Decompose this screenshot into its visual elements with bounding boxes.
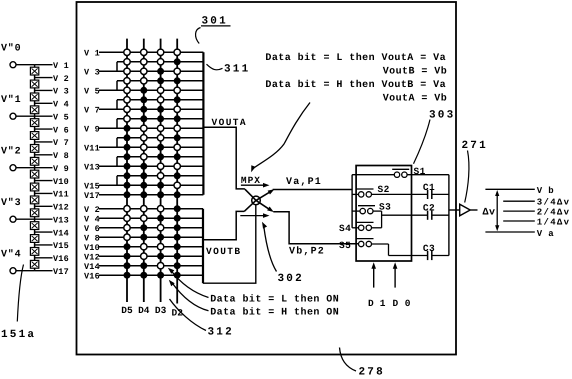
svg-text:V10: V10 <box>53 177 69 187</box>
svg-text:V 4: V 4 <box>53 100 69 110</box>
svg-text:C2: C2 <box>423 203 435 214</box>
svg-text:VoutB = Vb: VoutB = Vb <box>383 66 448 78</box>
svg-text:V12: V12 <box>84 252 100 262</box>
svg-text:V13: V13 <box>53 215 69 225</box>
svg-text:V 6: V 6 <box>53 125 69 135</box>
svg-text:311: 311 <box>224 64 250 76</box>
svg-text:V17: V17 <box>84 191 100 201</box>
svg-text:271: 271 <box>462 140 488 152</box>
annotation: data bit H behaviour <box>265 79 447 104</box>
svg-text:S4: S4 <box>339 223 351 234</box>
matrix input row wire V11 with switch dots <box>84 143 203 153</box>
svg-text:303: 303 <box>429 110 455 122</box>
svg-text:VOUTB: VOUTB <box>206 246 242 257</box>
ladder tap wire and label V4 <box>35 100 69 110</box>
data bit column line D3 <box>155 39 167 316</box>
terminal V"1 <box>1 94 35 119</box>
resistor R3 <box>30 93 38 101</box>
matrix input row wire V16 with switch dots <box>84 271 203 281</box>
svg-text:2/4Δv: 2/4Δv <box>537 208 571 218</box>
control input D0 arrow <box>393 262 411 309</box>
switch S2 <box>352 184 427 197</box>
svg-text:Va,P1: Va,P1 <box>286 177 322 188</box>
common storage node wire <box>448 175 450 256</box>
resistor R8 <box>30 157 38 165</box>
switch S3 <box>352 202 391 228</box>
matrix input row wire V8 with switch dots <box>84 233 203 243</box>
svg-text:278: 278 <box>359 367 385 379</box>
matrix input row wire V15 with switch dots <box>84 181 203 191</box>
svg-text:V15: V15 <box>84 181 100 191</box>
matrix input row wire V1 with switch dots <box>84 48 203 58</box>
terminal V"0 <box>1 43 35 68</box>
reference label 311 with leader <box>207 64 251 76</box>
matrix input row wire V13 with switch dots <box>84 162 203 172</box>
matrix input row wire V17 with switch dots <box>84 191 203 201</box>
svg-text:V a: V a <box>537 229 554 239</box>
svg-text:V10: V10 <box>84 243 100 253</box>
ladder tap wire and label V3 <box>35 87 69 97</box>
ladder tap wire and label V16 <box>35 254 69 264</box>
ladder tap wire and label V17 <box>35 267 69 277</box>
svg-text:V 8: V 8 <box>84 233 100 243</box>
reference label 303 with leader <box>414 110 456 164</box>
svg-text:V 1: V 1 <box>84 48 100 58</box>
svg-text:V 5: V 5 <box>53 112 69 122</box>
svg-text:V12: V12 <box>53 203 69 213</box>
svg-text:Data bit = H then VoutB = Va: Data bit = H then VoutB = Va <box>265 79 446 91</box>
matrix branch row wire (pairs with row below) <box>117 58 203 71</box>
leader arrow from annotation to MPX <box>251 103 310 173</box>
svg-text:D3: D3 <box>155 305 167 316</box>
svg-text:MPX: MPX <box>241 175 261 186</box>
matrix branch row wire (pairs with row below) <box>117 77 203 90</box>
lower output bus (even taps, VOUTB) <box>202 209 204 284</box>
svg-text:V 6: V 6 <box>84 224 100 234</box>
data bit column line D4 <box>138 39 150 316</box>
arrow below MPX <box>240 213 269 218</box>
matrix input row wire V3 with switch dots <box>84 67 203 77</box>
svg-text:V 1: V 1 <box>53 61 69 71</box>
svg-text:Data bit = L then VoutA = Va: Data bit = L then VoutA = Va <box>265 52 446 64</box>
svg-text:V16: V16 <box>84 271 100 281</box>
svg-text:V17: V17 <box>53 267 69 277</box>
svg-text:C3: C3 <box>423 243 435 254</box>
node Vb level line <box>485 186 554 196</box>
matrix input row wire V4 with switch dots <box>84 214 203 224</box>
svg-text:VoutA = Vb: VoutA = Vb <box>383 92 448 104</box>
terminal V"4 <box>1 249 35 274</box>
resistor ladder string 151a <box>34 65 36 271</box>
ladder tap wire and label V15 <box>35 241 69 251</box>
resistor R5 <box>30 119 38 127</box>
svg-text:V14: V14 <box>53 228 69 238</box>
svg-text:Data bit = H then ON: Data bit = H then ON <box>210 307 339 319</box>
terminal V"2 <box>1 146 35 171</box>
matrix input row wire V10 with switch dots <box>84 243 203 253</box>
buffer amplifier 271 <box>449 204 478 216</box>
ladder tap wire and label V2 <box>35 74 69 84</box>
ladder tap wire and label V6 <box>35 125 69 135</box>
matrix input row wire V9 with switch dots <box>84 124 203 134</box>
resistor R14 <box>30 235 38 243</box>
1/4 delta-v level line <box>503 218 570 228</box>
resistor R9 <box>30 170 38 178</box>
svg-text:V"1: V"1 <box>1 94 21 106</box>
ladder tap wire and label V8 <box>35 151 69 161</box>
svg-text:V14: V14 <box>84 262 100 272</box>
switch block 303 box <box>356 166 411 262</box>
terminal V"3 <box>1 197 35 222</box>
matrix branch row wire (pairs with row below) <box>117 172 203 185</box>
resistor R4 <box>30 106 38 114</box>
svg-text:Data bit = L then ON: Data bit = L then ON <box>210 293 339 305</box>
resistor R1 <box>30 67 38 75</box>
svg-text:D5: D5 <box>121 305 133 316</box>
MPX control wire from lower bus (D2) <box>203 205 256 284</box>
ladder tap wire and label V10 <box>35 177 69 187</box>
svg-text:V"3: V"3 <box>1 197 21 209</box>
svg-text:VOUTA: VOUTA <box>212 117 248 128</box>
capacitor C1 <box>423 182 449 199</box>
data bit column line D2 <box>172 39 184 319</box>
3/4 delta-v level line <box>503 198 570 208</box>
ladder tap wire and label V12 <box>35 203 69 213</box>
svg-text:V15: V15 <box>53 241 69 251</box>
svg-text:V 3: V 3 <box>84 67 100 77</box>
svg-text:V 5: V 5 <box>84 86 100 96</box>
matrix input row wire V5 with switch dots <box>84 86 203 96</box>
svg-text:Vb,P2: Vb,P2 <box>289 246 325 258</box>
ladder tap wire and label V5 <box>35 112 69 122</box>
svg-text:V"0: V"0 <box>1 43 21 55</box>
svg-text:D 1: D 1 <box>368 298 386 309</box>
resistor R2 <box>30 80 38 88</box>
matrix input row wire V7 with switch dots <box>84 105 203 115</box>
svg-text:V13: V13 <box>84 162 100 172</box>
svg-text:V 8: V 8 <box>53 151 69 161</box>
svg-text:S2: S2 <box>378 184 390 195</box>
upper output bus (odd taps, VOUTA) <box>202 52 204 195</box>
annotation: data bit L then ON with leader arrow <box>168 268 339 306</box>
resistor R7 <box>30 145 38 153</box>
wire Va,P1 to switch block <box>273 177 353 190</box>
ladder tap wire and label V1 <box>35 61 69 71</box>
switch S5 <box>339 239 389 256</box>
control input D1 arrow <box>368 262 386 309</box>
svg-text:V11: V11 <box>84 143 100 153</box>
2/4 delta-v level line <box>503 208 570 218</box>
resistor R12 <box>30 209 38 217</box>
wire VOUTB from lower bus to MPX <box>203 211 244 257</box>
annotation: data bit H then ON with leader arrow <box>169 280 339 319</box>
svg-text:V 7: V 7 <box>84 105 100 115</box>
resistor R11 <box>30 196 38 204</box>
svg-text:V"4: V"4 <box>1 249 21 261</box>
svg-text:V 9: V 9 <box>84 124 100 134</box>
svg-text:V16: V16 <box>53 254 69 264</box>
annotation: data bit L behaviour <box>265 52 447 77</box>
svg-text:1/4Δv: 1/4Δv <box>537 218 571 228</box>
svg-text:D4: D4 <box>138 305 150 316</box>
node Va level line <box>485 229 554 239</box>
svg-text:V b: V b <box>537 186 554 196</box>
ladder tap wire and label V13 <box>35 215 69 225</box>
matrix input row wire V6 with switch dots <box>84 224 203 234</box>
svg-text:V 7: V 7 <box>53 138 69 148</box>
MPX crossbar switch 302 <box>244 189 274 212</box>
reference label 312 with leader <box>170 299 234 339</box>
svg-text:V 2: V 2 <box>84 205 100 215</box>
ladder tap wire and label V9 <box>35 164 69 174</box>
svg-text:V11: V11 <box>53 190 69 200</box>
capacitor C3 <box>389 243 449 260</box>
matrix branch row wire (pairs with row below) <box>117 115 203 128</box>
switch S4 <box>339 222 382 234</box>
svg-text:V 4: V 4 <box>84 214 100 224</box>
data bit column line D5 <box>121 39 133 316</box>
matrix branch row wire (pairs with row below) <box>117 153 203 166</box>
delta-v span arrow <box>483 190 500 231</box>
matrix input row wire V12 with switch dots <box>84 252 203 262</box>
matrix input row wire V14 with switch dots <box>84 262 203 272</box>
svg-text:V 9: V 9 <box>53 164 69 174</box>
svg-text:C1: C1 <box>423 182 435 193</box>
svg-text:3/4Δv: 3/4Δv <box>537 198 571 208</box>
switch S1 <box>352 166 449 177</box>
ladder tap wire and label V7 <box>35 138 69 148</box>
svg-text:V 2: V 2 <box>53 74 69 84</box>
svg-text:Δv: Δv <box>483 208 496 219</box>
svg-text:S3: S3 <box>379 202 391 213</box>
ladder tap wire and label V14 <box>35 228 69 238</box>
MPX label with arrow <box>241 175 270 188</box>
resistor R6 <box>30 132 38 140</box>
resistor R15 <box>30 248 38 256</box>
svg-text:S5: S5 <box>339 240 351 251</box>
wire VOUTA from upper bus to MPX <box>203 117 247 189</box>
reference label 301 with bracket <box>196 16 231 44</box>
svg-text:S1: S1 <box>414 166 426 177</box>
reference label 271 with leader <box>462 140 488 203</box>
svg-text:D 0: D 0 <box>393 298 411 309</box>
figure frame border <box>77 2 457 355</box>
wire Vb,P2 to switch S5 <box>273 212 358 258</box>
reference label 302 with leader arrow <box>262 222 304 285</box>
svg-text:312: 312 <box>208 327 234 339</box>
matrix branch row wire (pairs with row below) <box>117 134 203 147</box>
resistor R10 <box>30 183 38 191</box>
matrix input row wire V2 with switch dots <box>84 205 203 215</box>
resistor R16 <box>30 260 38 268</box>
svg-text:302: 302 <box>278 273 304 285</box>
resistor R13 <box>30 222 38 230</box>
svg-text:V"2: V"2 <box>1 146 21 158</box>
matrix branch row wire (pairs with row below) <box>117 96 203 109</box>
capacitor C2 <box>382 203 449 220</box>
svg-text:V 3: V 3 <box>53 87 69 97</box>
ladder tap wire and label V11 <box>35 190 69 200</box>
reference label 151a with leader <box>1 265 36 342</box>
svg-text:151a: 151a <box>1 329 36 341</box>
input node wire (Va) <box>351 175 353 228</box>
reference label 278 with leader <box>340 348 385 379</box>
